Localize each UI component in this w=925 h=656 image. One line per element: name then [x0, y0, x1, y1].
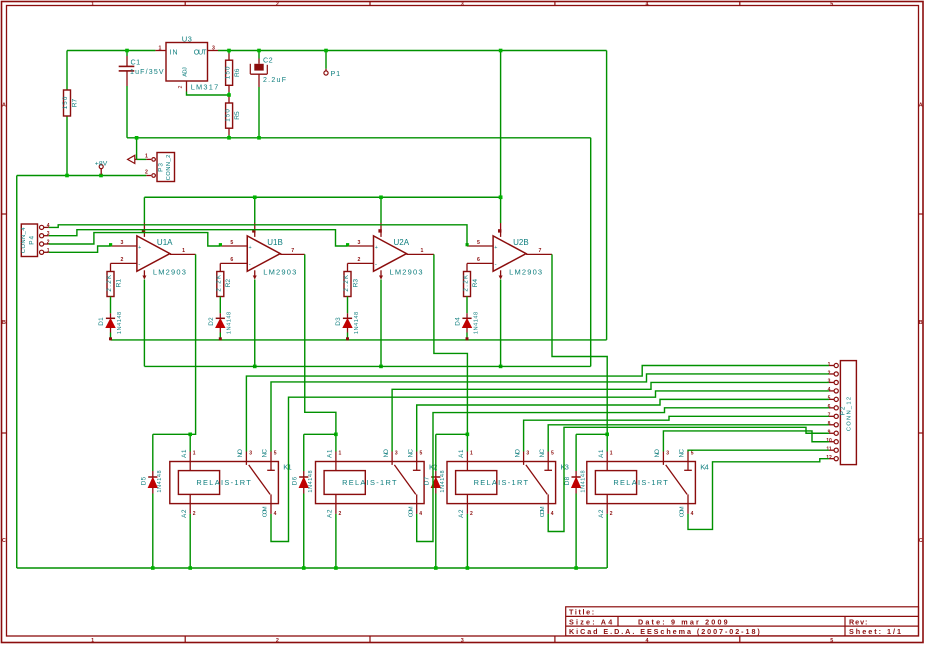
wire K1 COM to P2 pin4 — [271, 391, 829, 542]
svg-text:5: 5 — [830, 1, 833, 7]
P2 pin 5 — [834, 397, 838, 401]
svg-text:U2B: U2B — [513, 238, 529, 247]
relay K3 pin NO — [523, 452, 525, 462]
svg-text:D2: D2 — [208, 317, 215, 326]
wire K1 NC to P2 pin2 — [271, 374, 829, 452]
svg-text:5: 5 — [691, 450, 694, 456]
svg-text:1: 1 — [470, 450, 473, 456]
junction K2 A2 rail — [334, 566, 338, 570]
svg-text:1: 1 — [159, 45, 162, 51]
wire gnd drop right — [590, 138, 592, 367]
svg-text:1: 1 — [91, 638, 94, 644]
svg-text:R7: R7 — [72, 98, 79, 107]
P2 pin 4 — [834, 389, 838, 393]
relay K4 coil pins inside — [606, 462, 608, 471]
U1A V+ pin — [143, 197, 145, 223]
diode D1 — [110, 313, 112, 318]
junction P1 tap — [324, 49, 328, 53]
svg-text:1: 1 — [91, 1, 94, 7]
svg-text:5: 5 — [551, 450, 554, 456]
svg-text:COM: COM — [263, 506, 269, 517]
junction +8V tap — [99, 174, 103, 178]
U3 pin 1 IN — [155, 50, 166, 52]
svg-text:C: C — [919, 538, 923, 544]
diode D2 — [219, 313, 221, 318]
P2 pin 8 — [834, 423, 838, 427]
relay K1 coil box — [178, 471, 219, 495]
svg-text:3: 3 — [461, 1, 464, 7]
relay K1 pin NO — [245, 452, 247, 462]
P2 pin 12 — [834, 457, 838, 461]
svg-text:4: 4 — [691, 511, 694, 517]
title block box — [566, 607, 919, 636]
svg-text:LM2903: LM2903 — [509, 268, 542, 277]
wire diode clamp rail — [111, 339, 607, 341]
junction R7 bottom — [65, 174, 69, 178]
op-amp U1B triangle — [247, 236, 280, 271]
U2B plus input pin 5 — [467, 245, 493, 247]
svg-text:LM2903: LM2903 — [390, 268, 423, 277]
wire P4 pin4 to U2B plus input — [49, 225, 467, 246]
op-amp U1A triangle — [137, 236, 170, 271]
wire K3 NO to P2 pin7 — [524, 416, 829, 451]
resistor R4 — [464, 272, 471, 297]
svg-text:RELAIS-1RT: RELAIS-1RT — [342, 478, 397, 487]
op-amp U2B triangle — [493, 236, 526, 271]
relay K1 switch — [245, 462, 247, 465]
relay K4 switch — [662, 462, 664, 465]
svg-text:1: 1 — [610, 450, 613, 456]
wire K4 COM to P2 pin12 — [688, 459, 829, 530]
svg-text:1N4148: 1N4148 — [580, 470, 586, 492]
svg-text:150: 150 — [62, 96, 69, 109]
svg-text:1N4148: 1N4148 — [117, 312, 123, 334]
svg-text:4: 4 — [551, 511, 554, 517]
svg-text:Date: 9 mar 2009: Date: 9 mar 2009 — [638, 617, 728, 626]
svg-text:4: 4 — [274, 511, 277, 517]
relay K2 coil box — [324, 471, 365, 495]
junction U2A V- rail — [379, 365, 383, 369]
junction D5 rail — [151, 566, 155, 570]
U2B V- pin — [500, 270, 502, 278]
svg-text:2.2uF: 2.2uF — [263, 77, 286, 84]
svg-text:LM317: LM317 — [191, 82, 219, 91]
wire V- gnd rail — [144, 365, 590, 367]
junction +8V rail right — [499, 195, 503, 199]
svg-text:B: B — [919, 320, 923, 326]
svg-text:C: C — [2, 538, 6, 544]
resistor R6 — [226, 60, 233, 85]
connector P3 CONN_2 — [157, 153, 175, 182]
wire R7 column top — [66, 51, 68, 91]
resistor R3 bottom wire — [347, 297, 349, 314]
relay K2 pin NC — [416, 452, 418, 462]
relay K3 switch — [523, 462, 525, 465]
junction K1 A1 feed — [188, 433, 192, 437]
junction +8V riser top — [499, 49, 503, 53]
wire diode rail riser — [606, 51, 608, 340]
U1B V+ pin — [254, 197, 256, 223]
relay K1 pin NC — [270, 452, 272, 462]
diode D4 anode wire — [466, 333, 468, 340]
flyback diode D6 — [303, 434, 305, 471]
svg-text:1: 1 — [193, 450, 196, 456]
svg-text:K4: K4 — [700, 463, 708, 472]
svg-text:5: 5 — [230, 240, 233, 246]
junction D7 rail — [434, 566, 438, 570]
svg-text:D6: D6 — [291, 476, 298, 485]
svg-text:COM: COM — [540, 506, 546, 517]
svg-text:COM: COM — [408, 506, 414, 517]
resistor R7 — [64, 90, 71, 116]
pin square D4 rail — [466, 337, 469, 340]
diode D1 anode wire — [110, 333, 112, 340]
svg-text:OUT: OUT — [194, 49, 207, 56]
svg-text:D7: D7 — [424, 476, 431, 485]
U2A V- pin — [380, 270, 382, 278]
flyback diode D5 top wire — [153, 433, 190, 435]
svg-text:2: 2 — [358, 257, 361, 263]
svg-text:1N4148: 1N4148 — [354, 312, 360, 334]
P3 pin 1 — [152, 158, 156, 162]
relay K2 pin COM — [416, 504, 418, 514]
diode D2 anode wire — [219, 333, 221, 340]
frame row ticks left and right — [2, 213, 7, 215]
svg-text:CONN_4: CONN_4 — [21, 227, 27, 254]
wire top rail input segment — [67, 50, 155, 52]
svg-text:RELAIS-1RT: RELAIS-1RT — [196, 478, 251, 487]
flyback diode D7 top wire — [436, 433, 468, 435]
svg-text:1N4148: 1N4148 — [440, 470, 446, 492]
svg-text:+: + — [248, 245, 251, 251]
relay K3 coil pins inside — [466, 462, 468, 471]
svg-text:+: + — [138, 245, 141, 251]
flyback diode D6 bottom wire — [303, 494, 305, 569]
svg-text:3: 3 — [121, 240, 124, 246]
svg-text:LM2903: LM2903 — [263, 268, 296, 277]
flyback diode D6 top wire — [304, 433, 336, 435]
junction U2A V+ rail — [379, 195, 383, 199]
flyback diode D7 — [435, 434, 437, 471]
P4 pin 3 — [40, 234, 44, 238]
U2B V+ pin — [500, 197, 502, 223]
svg-text:1N4148: 1N4148 — [157, 470, 163, 492]
svg-text:2: 2 — [276, 1, 279, 7]
connector P2 CONN_12 — [840, 361, 856, 465]
svg-text:2: 2 — [145, 170, 148, 176]
svg-text:A1: A1 — [598, 449, 605, 458]
U2A minus input pin 2 — [348, 262, 374, 264]
relay K3 pin COM — [547, 504, 549, 514]
junction P3 gnd — [135, 136, 139, 140]
svg-text:3: 3 — [249, 450, 252, 456]
junction D6 rail — [302, 566, 306, 570]
P2 pin 9 — [834, 431, 838, 435]
svg-text:7: 7 — [291, 248, 294, 254]
P2 pin 1 — [834, 363, 838, 367]
svg-text:1: 1 — [182, 248, 185, 254]
P2 pin 6 — [834, 406, 838, 410]
U3 pin 2 ADJ — [186, 81, 188, 92]
junction C2 top — [257, 49, 261, 53]
svg-text:2: 2 — [121, 257, 124, 263]
svg-text:2.2K: 2.2K — [106, 274, 113, 292]
svg-text:3: 3 — [461, 638, 464, 644]
svg-text:1N4148: 1N4148 — [227, 312, 233, 334]
relay K3 pin A1 — [466, 452, 468, 462]
relay K3 pin NC — [547, 452, 549, 462]
wire P4 pin3 to U2A plus input — [49, 230, 348, 246]
svg-text:U2A: U2A — [394, 238, 410, 247]
wire U2B out to K4 A1 — [552, 254, 607, 434]
svg-text:150: 150 — [224, 66, 231, 79]
U1A output pin 1 — [170, 253, 196, 255]
junction U2B V- rail — [499, 365, 503, 369]
svg-text:+: + — [494, 245, 497, 251]
U1B plus input pin 5 — [220, 245, 247, 247]
svg-text:B: B — [2, 320, 6, 326]
U2B minus input pin 6 — [467, 262, 493, 264]
wire U1A out to K1 A1 — [190, 254, 195, 434]
svg-text:2: 2 — [178, 85, 184, 88]
svg-text:C2: C2 — [263, 56, 273, 65]
svg-text:IN: IN — [170, 49, 178, 56]
svg-text:4: 4 — [419, 511, 422, 517]
svg-text:3: 3 — [395, 450, 398, 456]
svg-text:-: - — [495, 261, 497, 268]
P3 pin 2 — [152, 174, 156, 178]
pin square D1 rail — [109, 337, 112, 340]
svg-text:A2: A2 — [181, 509, 188, 518]
svg-text:CONN_12: CONN_12 — [847, 397, 853, 431]
svg-text:A2: A2 — [598, 509, 605, 518]
U2A plus input pin 3 — [348, 245, 374, 247]
wire P3 input rail — [17, 175, 147, 177]
relay K2 outline box — [316, 462, 425, 504]
svg-text:3: 3 — [526, 450, 529, 456]
U1A minus input pin 2 — [111, 262, 137, 264]
svg-text:+: + — [375, 245, 378, 251]
svg-text:COM: COM — [680, 506, 686, 517]
wire K2 NO to P2 pin3 — [392, 382, 829, 451]
resistor R4 bottom wire — [466, 297, 468, 314]
svg-text:A2: A2 — [327, 509, 334, 518]
wire left column — [16, 176, 18, 569]
svg-text:P3: P3 — [158, 163, 165, 172]
junction D8 rail — [574, 566, 578, 570]
svg-text:U3: U3 — [182, 34, 192, 43]
diode D3 — [347, 313, 349, 318]
wire U1B out to K2 A1 — [305, 254, 336, 434]
resistor R2 — [217, 272, 224, 297]
svg-text:1N4148: 1N4148 — [308, 470, 314, 492]
svg-text:2.2K: 2.2K — [343, 274, 350, 292]
svg-text:P4: P4 — [29, 235, 36, 244]
P2 pin 2 — [834, 372, 838, 376]
svg-text:NC: NC — [539, 448, 546, 457]
U2A V+ pin — [380, 197, 382, 223]
wire R7 column bottom — [66, 116, 68, 176]
svg-text:NO: NO — [514, 449, 521, 458]
U1B minus input pin 6 — [220, 262, 247, 264]
relay K3 pin A2 — [466, 504, 468, 514]
junction C2 bottom — [257, 136, 261, 140]
svg-text:1: 1 — [339, 450, 342, 456]
flyback diode D5 — [152, 434, 154, 471]
U2A output pin 1 — [407, 253, 434, 255]
svg-text:A: A — [2, 103, 6, 109]
svg-text:2: 2 — [610, 511, 613, 517]
wire P4 pin1 to U1A plus input — [49, 246, 111, 252]
svg-text:5: 5 — [830, 638, 833, 644]
resistor R5 — [226, 103, 233, 128]
P4 pin 1 — [40, 250, 44, 254]
P4 pin 4 — [40, 225, 44, 229]
relay K4 pin COM — [687, 504, 689, 514]
svg-text:NO: NO — [654, 449, 661, 458]
junction divider mid — [227, 93, 231, 97]
svg-text:R6: R6 — [234, 68, 241, 77]
resistor R2 bottom wire — [219, 297, 221, 314]
junction K1 A2 rail — [188, 566, 192, 570]
relay K1 pin A1 — [189, 452, 191, 462]
svg-text:P2: P2 — [839, 406, 846, 415]
svg-text:D4: D4 — [455, 317, 462, 326]
relay K4 pin A2 — [606, 504, 608, 514]
op-amp U2A triangle — [374, 236, 407, 271]
relay K4 outline box — [587, 462, 696, 504]
wire op-amp +8V rail — [144, 196, 500, 198]
svg-text:U1A: U1A — [157, 238, 173, 247]
P4 pin 2 — [40, 242, 44, 246]
wire psu gnd rail — [127, 137, 591, 139]
svg-text:P1: P1 — [331, 69, 341, 78]
svg-text:C1: C1 — [131, 57, 141, 66]
svg-text:NO: NO — [383, 449, 390, 458]
svg-text:2: 2 — [276, 638, 279, 644]
pin square D2 rail — [219, 337, 222, 340]
relay K1 pin A2 — [189, 504, 191, 514]
svg-text:3: 3 — [212, 45, 215, 51]
resistor R1 bottom wire — [110, 297, 112, 314]
svg-text:NC: NC — [407, 448, 414, 457]
svg-text:2: 2 — [339, 511, 342, 517]
wire top rail output segment — [218, 50, 607, 52]
wire P3 pin1 to gnd rail — [137, 158, 147, 160]
relay K4 coil box — [595, 471, 636, 495]
diode D4 — [466, 313, 468, 318]
svg-text:RELAIS-1RT: RELAIS-1RT — [613, 478, 668, 487]
svg-text:2.2K: 2.2K — [462, 274, 469, 292]
svg-text:3: 3 — [666, 450, 669, 456]
wire K2 NC to P2 pin5 — [417, 399, 829, 451]
svg-text:A2: A2 — [458, 509, 465, 518]
svg-text:1: 1 — [420, 248, 423, 254]
wire K4 NC to P2 pin11 — [688, 450, 829, 451]
svg-text:D5: D5 — [141, 476, 148, 485]
svg-text:CONN_2: CONN_2 — [166, 155, 172, 181]
svg-text:4: 4 — [646, 638, 649, 644]
P2 pin 10 — [834, 440, 838, 444]
svg-text:R5: R5 — [234, 111, 241, 120]
wire +8V riser — [500, 51, 502, 198]
wire K4 NO to P2 pin10 — [663, 431, 829, 452]
junction C1 top — [125, 49, 129, 53]
svg-text:NC: NC — [262, 448, 269, 457]
wire coil +8V rail — [17, 567, 607, 569]
relay K2 coil pins inside — [335, 462, 337, 471]
svg-text:R4: R4 — [472, 279, 479, 288]
P2 pin 3 — [834, 380, 838, 384]
resistor R3 — [344, 272, 351, 297]
flyback diode D8 — [575, 434, 577, 471]
relay K2 switch — [391, 462, 393, 465]
U1B V- pin — [254, 270, 256, 278]
relay K4 pin NO — [662, 452, 664, 462]
svg-text:5: 5 — [477, 240, 480, 246]
svg-text:-: - — [138, 261, 140, 268]
svg-text:5: 5 — [420, 450, 423, 456]
relay K3 coil box — [456, 471, 497, 495]
svg-text:K1: K1 — [283, 463, 291, 472]
svg-text:A: A — [919, 103, 923, 109]
relay K2 pin A2 — [335, 504, 337, 514]
flyback diode D5 bottom wire — [152, 494, 154, 569]
relay K4 pin A1 — [606, 452, 608, 462]
svg-text:6: 6 — [477, 257, 480, 263]
connector P1 — [325, 51, 327, 69]
wire K3 NC to P2 pin8 — [548, 425, 829, 452]
svg-text:Rev:: Rev: — [849, 617, 867, 626]
svg-text:2: 2 — [193, 511, 196, 517]
relay K4 pin NC — [687, 452, 689, 462]
U1B output pin 7 — [280, 253, 305, 255]
svg-text:A1: A1 — [181, 449, 188, 458]
wire U2A out to K3 A1 — [434, 254, 468, 434]
svg-text:D8: D8 — [564, 476, 571, 485]
wire K2 COM to P2 pin6 — [417, 408, 829, 542]
svg-text:NO: NO — [237, 449, 244, 458]
junction K4 A1 feed — [605, 433, 609, 437]
junction R6 top — [227, 49, 231, 53]
svg-text:7: 7 — [539, 248, 542, 254]
flyback diode D7 bottom wire — [435, 494, 437, 569]
svg-text:R2: R2 — [225, 279, 232, 288]
svg-text:Sheet: 1/1: Sheet: 1/1 — [849, 627, 901, 636]
regulator U3 box — [166, 43, 208, 82]
flyback diode D8 bottom wire — [575, 494, 577, 569]
flyback diode D8 top wire — [576, 433, 607, 435]
svg-text:1N4148: 1N4148 — [473, 312, 479, 334]
svg-text:R1: R1 — [115, 279, 122, 288]
svg-text:ADJ: ADJ — [182, 67, 188, 77]
pin square D3 rail — [346, 337, 349, 340]
U1A plus input pin 3 — [111, 245, 137, 247]
junction K2 A1 feed — [334, 433, 338, 437]
svg-text:A1: A1 — [458, 449, 465, 458]
svg-text:150: 150 — [224, 109, 231, 122]
svg-text:2: 2 — [470, 511, 473, 517]
svg-text:-: - — [249, 261, 251, 268]
svg-text:4: 4 — [646, 1, 649, 7]
wire K3 COM to P2 pin9 — [548, 427, 829, 531]
svg-text:U1B: U1B — [267, 238, 283, 247]
svg-text:1uF/35V: 1uF/35V — [130, 69, 164, 76]
relay K2 pin NO — [391, 452, 393, 462]
wire P4 pin2 to U1B plus input — [49, 233, 221, 246]
junction K3 A1 feed — [466, 433, 470, 437]
wire K1 NO to P2 pin1 — [246, 366, 829, 452]
